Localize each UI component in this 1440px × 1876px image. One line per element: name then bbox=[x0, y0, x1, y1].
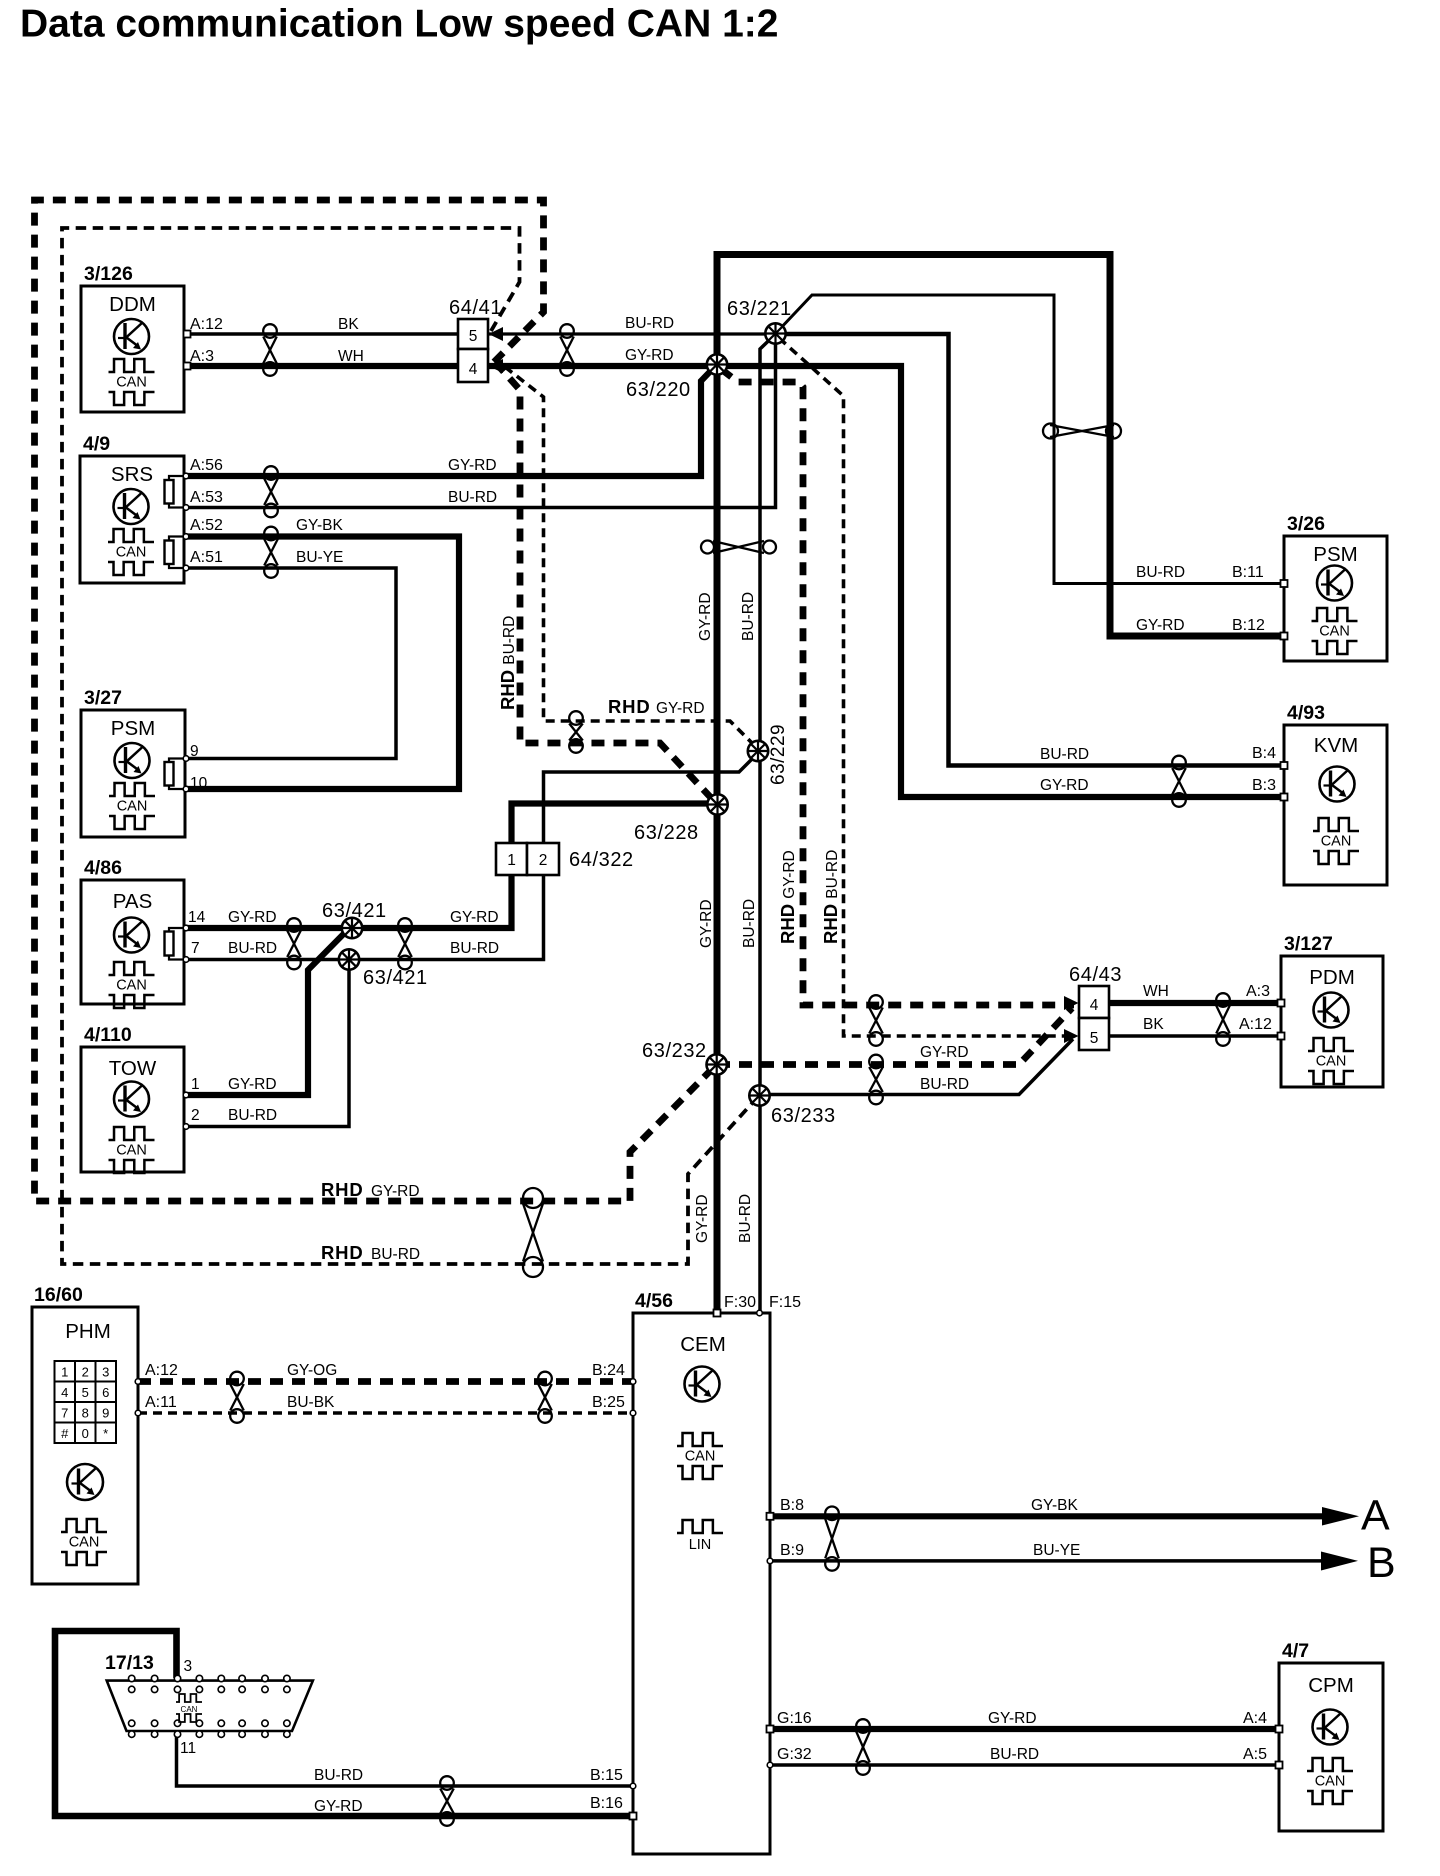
wire RHD GY-RD from node 63/220 to connector 64/43 pin 4 bbox=[721, 369, 1074, 1005]
svg-text:GY-RD: GY-RD bbox=[450, 909, 499, 926]
wire RHD GY-RD from 64/41 pin4 to node 63/229 bbox=[505, 367, 752, 743]
svg-text:3: 3 bbox=[102, 1365, 109, 1380]
svg-text:7: 7 bbox=[191, 940, 200, 957]
wire BU-RD SRS A:53 to node 63/221 bbox=[186, 336, 776, 508]
svg-text:2: 2 bbox=[539, 852, 548, 869]
node 63/228 bbox=[707, 794, 727, 814]
node 63/421 lower bbox=[339, 949, 359, 969]
svg-text:A:4: A:4 bbox=[1243, 1710, 1267, 1727]
svg-text:9: 9 bbox=[190, 743, 199, 760]
svg-text:CAN: CAN bbox=[117, 799, 148, 815]
svg-text:GY-RD: GY-RD bbox=[228, 909, 277, 926]
svg-text:4: 4 bbox=[1090, 997, 1099, 1014]
wire WH DDM A:3 to 64/41 pin 4 bbox=[186, 363, 458, 369]
svg-text:GY-RD: GY-RD bbox=[448, 457, 497, 474]
twisted pair PAS near bbox=[287, 918, 301, 969]
svg-text:WH: WH bbox=[338, 348, 364, 365]
wire RHD BU-RD from 64/41 pin5 to node 63/228 bbox=[495, 362, 713, 800]
LIN symbol bbox=[677, 1520, 723, 1533]
svg-text:4/9: 4/9 bbox=[83, 433, 110, 455]
svg-text:2: 2 bbox=[191, 1107, 200, 1124]
svg-text:5: 5 bbox=[82, 1385, 89, 1400]
twisted pair right of 64/41 bbox=[560, 324, 574, 376]
svg-text:CAN: CAN bbox=[1316, 1054, 1347, 1070]
svg-text:B:15: B:15 bbox=[590, 1767, 623, 1784]
svg-text:63/229: 63/229 bbox=[768, 724, 789, 785]
svg-text:3/27: 3/27 bbox=[84, 687, 122, 709]
wire BU-RD TOW pin2 to node 63/421 bbox=[186, 960, 349, 1127]
svg-text:A:12: A:12 bbox=[190, 316, 223, 333]
svg-text:16/60: 16/60 bbox=[34, 1284, 83, 1306]
svg-text:RHD GY-RD: RHD GY-RD bbox=[777, 850, 798, 944]
svg-text:63/233: 63/233 bbox=[771, 1105, 836, 1127]
wire BU-RD node 63/221 to KVM B:4 bbox=[776, 334, 1285, 766]
svg-text:BU-RD: BU-RD bbox=[1040, 746, 1089, 763]
svg-text:B:12: B:12 bbox=[1232, 617, 1265, 634]
svg-text:A: A bbox=[1361, 1492, 1390, 1540]
svg-text:GY-RD: GY-RD bbox=[656, 700, 705, 717]
twisted pair SRS A:56/A:53 bbox=[264, 466, 278, 517]
svg-text:#: # bbox=[61, 1426, 69, 1441]
svg-text:63/221: 63/221 bbox=[727, 298, 792, 320]
twisted pair main verticals bbox=[701, 541, 776, 554]
wire GY-RD top bus from 63/220 to PSM 3/26 B:12 bbox=[717, 255, 1284, 637]
svg-text:B:16: B:16 bbox=[590, 1795, 623, 1812]
svg-text:CAN: CAN bbox=[116, 978, 147, 994]
wire BU-RD 64/322 pin2 to node 63/229 bbox=[544, 757, 755, 844]
svg-text:BU-BK: BU-BK bbox=[287, 1394, 335, 1411]
svg-text:3/26: 3/26 bbox=[1287, 513, 1325, 535]
svg-text:B:8: B:8 bbox=[780, 1497, 804, 1514]
svg-text:GY-RD: GY-RD bbox=[314, 1798, 363, 1815]
svg-text:BK: BK bbox=[338, 316, 359, 333]
svg-text:F:30: F:30 bbox=[724, 1294, 756, 1311]
svg-text:8: 8 bbox=[82, 1406, 89, 1421]
svg-text:B: B bbox=[1367, 1539, 1396, 1587]
svg-text:*: * bbox=[103, 1426, 108, 1441]
wire RHD GY-RD outer dashed loop bbox=[35, 200, 714, 1201]
svg-text:A:51: A:51 bbox=[190, 549, 223, 566]
svg-text:SRS: SRS bbox=[111, 463, 153, 486]
svg-text:BU-RD: BU-RD bbox=[740, 592, 757, 641]
svg-text:RHD BU-RD: RHD BU-RD bbox=[820, 850, 841, 944]
svg-text:G:32: G:32 bbox=[777, 1746, 812, 1763]
svg-text:BU-RD: BU-RD bbox=[228, 940, 277, 957]
wire BU-RD from 64/41 pin5 to node 63/221 bbox=[488, 332, 776, 335]
svg-text:BU-YE: BU-YE bbox=[296, 549, 343, 566]
64/43 pin5 arrow bbox=[1064, 1029, 1079, 1043]
svg-text:PDM: PDM bbox=[1309, 966, 1355, 989]
wire GY-OG dashed PHM A:12 to CEM B:24 bbox=[138, 1378, 633, 1385]
svg-text:A:5: A:5 bbox=[1243, 1746, 1267, 1763]
twisted pair RHD bottom bbox=[523, 1188, 543, 1277]
svg-text:BU-RD: BU-RD bbox=[990, 1746, 1039, 1763]
svg-text:BU-RD: BU-RD bbox=[450, 940, 499, 957]
twisted pair SRS A:52/A:51 bbox=[264, 527, 278, 578]
wire RHD BU-RD inner dashed loop bbox=[62, 228, 755, 1264]
svg-text:B:3: B:3 bbox=[1252, 777, 1276, 794]
svg-text:63/421: 63/421 bbox=[322, 900, 387, 922]
svg-text:11: 11 bbox=[180, 1740, 196, 1757]
twisted pair PHM near bbox=[230, 1372, 244, 1423]
svg-text:CAN: CAN bbox=[1321, 834, 1352, 850]
64/43 pin4 arrow bbox=[1064, 996, 1079, 1010]
svg-text:5: 5 bbox=[469, 328, 478, 345]
svg-text:DDM: DDM bbox=[109, 293, 156, 316]
wire GY-RD from 64/41 pin4 to node 63/220 bbox=[488, 363, 717, 369]
node 63/233 bbox=[749, 1085, 769, 1105]
svg-text:F:15: F:15 bbox=[769, 1294, 801, 1311]
node 63/232 bbox=[707, 1054, 727, 1074]
wire BU-RD main vertical 63/221 to CEM F:15 bbox=[760, 336, 774, 1313]
svg-text:3/127: 3/127 bbox=[1284, 933, 1333, 955]
svg-text:GY-RD: GY-RD bbox=[698, 899, 715, 948]
svg-text:TOW: TOW bbox=[109, 1057, 157, 1080]
svg-text:BK: BK bbox=[1143, 1016, 1164, 1033]
svg-text:3: 3 bbox=[184, 1658, 193, 1675]
wire GY-RD dashed from node 63/232 to 64/43 pin 4 bbox=[717, 1008, 1072, 1065]
svg-text:GY-RD: GY-RD bbox=[988, 1710, 1037, 1727]
wire RHD BU-RD from node 63/221 to connector 64/43 pin 5 bbox=[779, 338, 1074, 1036]
svg-text:GY-RD: GY-RD bbox=[697, 592, 714, 641]
wire GY-RD main vertical 63/220 to CEM F:30 bbox=[714, 366, 721, 1313]
svg-text:BU-RD: BU-RD bbox=[314, 1767, 363, 1784]
64/41 pin5 arrow bbox=[489, 327, 504, 341]
svg-text:PHM: PHM bbox=[65, 1320, 111, 1343]
wire GY-BK SRS A:52 to PSM 3/27 pin 10 bbox=[186, 537, 459, 790]
svg-text:4: 4 bbox=[469, 361, 478, 378]
svg-text:A:11: A:11 bbox=[145, 1394, 177, 1411]
svg-text:CAN: CAN bbox=[69, 1535, 100, 1551]
wire GY-RD 64/322 pin1 to node 63/228 bbox=[512, 804, 718, 844]
wire GY-BK CEM B:8 to A bbox=[770, 1513, 1330, 1519]
svg-text:GY-RD: GY-RD bbox=[920, 1044, 969, 1061]
wire BU-RD 17/13 pin11 to CEM B:15 bbox=[177, 1736, 634, 1786]
svg-text:GY-RD: GY-RD bbox=[1136, 617, 1185, 634]
svg-text:64/322: 64/322 bbox=[569, 849, 634, 871]
svg-text:B:9: B:9 bbox=[780, 1542, 804, 1559]
twisted pair CPM wires bbox=[856, 1719, 870, 1775]
svg-text:WH: WH bbox=[1143, 983, 1169, 1000]
wire BU-BK dashed PHM A:11 to CEM B:25 bbox=[138, 1411, 633, 1415]
wire BU-YE CEM B:9 to B bbox=[770, 1559, 1330, 1563]
wire BU-RD PAS pin7 through 63/421 to 64/322 pin 2 bbox=[186, 875, 544, 960]
svg-text:B:25: B:25 bbox=[592, 1394, 625, 1411]
svg-text:GY-BK: GY-BK bbox=[1031, 1497, 1078, 1514]
twisted pair PAS far bbox=[398, 918, 412, 969]
svg-text:4/7: 4/7 bbox=[1282, 1640, 1309, 1662]
svg-text:BU-RD: BU-RD bbox=[920, 1076, 969, 1093]
svg-text:GY-RD: GY-RD bbox=[625, 347, 674, 364]
svg-text:5: 5 bbox=[1090, 1030, 1099, 1047]
svg-text:4/56: 4/56 bbox=[635, 1290, 673, 1312]
svg-text:63/232: 63/232 bbox=[642, 1040, 707, 1062]
svg-text:BU-RD: BU-RD bbox=[741, 899, 758, 948]
twisted pair B:15/B:16 bbox=[440, 1776, 454, 1826]
svg-text:CAN: CAN bbox=[1315, 1774, 1346, 1790]
twisted pair RHD mid bbox=[569, 711, 583, 753]
arrow A bbox=[1322, 1507, 1359, 1526]
svg-text:63/220: 63/220 bbox=[626, 379, 691, 401]
svg-text:B:4: B:4 bbox=[1252, 745, 1276, 762]
svg-text:GY-RD: GY-RD bbox=[371, 1183, 420, 1200]
svg-text:KVM: KVM bbox=[1314, 734, 1358, 757]
arrow B bbox=[1321, 1552, 1358, 1571]
svg-text:A:3: A:3 bbox=[1246, 983, 1270, 1000]
svg-text:9: 9 bbox=[102, 1406, 109, 1421]
svg-text:BU-RD: BU-RD bbox=[228, 1107, 277, 1124]
64/41 pin4 arrow bbox=[489, 359, 504, 373]
svg-text:B:24: B:24 bbox=[592, 1362, 625, 1379]
svg-text:64/41: 64/41 bbox=[449, 297, 502, 319]
svg-text:CPM: CPM bbox=[1308, 1674, 1354, 1697]
svg-text:CAN: CAN bbox=[116, 545, 147, 561]
twisted pair KVM wires bbox=[1172, 756, 1186, 807]
wire GY-RD TOW pin1 to node 63/421 bbox=[186, 931, 347, 1096]
svg-text:A:56: A:56 bbox=[190, 457, 223, 474]
twisted pair DDM wires bbox=[263, 324, 277, 376]
twisted pair 63/232-63/233 pair bbox=[869, 1055, 883, 1105]
svg-text:GY-OG: GY-OG bbox=[287, 1362, 337, 1379]
svg-text:CAN: CAN bbox=[116, 1143, 147, 1159]
svg-text:BU-RD: BU-RD bbox=[1136, 564, 1185, 581]
svg-text:A:3: A:3 bbox=[190, 348, 214, 365]
svg-text:GY-RD: GY-RD bbox=[1040, 777, 1089, 794]
svg-text:1: 1 bbox=[61, 1365, 68, 1380]
twisted pair A/B wires bbox=[825, 1507, 839, 1571]
wire WH 64/43 pin4 to PDM A:3 bbox=[1109, 1000, 1281, 1006]
svg-text:GY-RD: GY-RD bbox=[694, 1194, 711, 1243]
svg-text:CEM: CEM bbox=[680, 1333, 726, 1356]
wire BU-RD CEM G:32 to CPM A:5 bbox=[770, 1763, 1279, 1767]
svg-text:LIN: LIN bbox=[689, 1537, 712, 1553]
wire BK DDM A:12 to 64/41 pin 5 bbox=[186, 332, 458, 336]
svg-text:BU-YE: BU-YE bbox=[1033, 1542, 1080, 1559]
svg-text:4: 4 bbox=[61, 1385, 68, 1400]
svg-text:B:11: B:11 bbox=[1232, 564, 1264, 581]
svg-text:Data communication Low speed C: Data communication Low speed CAN 1:2 bbox=[20, 3, 778, 46]
node 63/220 bbox=[707, 354, 727, 374]
wire BU-RD from 63/221 to PSM 3/26 B:11 bbox=[777, 295, 1284, 584]
svg-text:4/93: 4/93 bbox=[1287, 702, 1325, 724]
svg-text:CAN: CAN bbox=[685, 1449, 716, 1465]
svg-text:BU-RD: BU-RD bbox=[737, 1194, 754, 1243]
twisted pair PSM 3/26 verticals bbox=[1043, 424, 1121, 439]
wire GY-RD node 63/220 to KVM B:3 bbox=[717, 366, 1284, 797]
wire BU-YE SRS A:51 to PSM 3/27 pin 9 bbox=[186, 568, 396, 759]
svg-text:CAN: CAN bbox=[1319, 624, 1350, 640]
svg-text:64/43: 64/43 bbox=[1069, 964, 1122, 986]
wire GY-RD CEM G:16 to CPM A:4 bbox=[770, 1726, 1279, 1732]
svg-text:14: 14 bbox=[188, 909, 206, 926]
twisted pair PHM far bbox=[538, 1372, 552, 1423]
svg-text:7: 7 bbox=[61, 1406, 68, 1421]
wire BU-RD node 63/233 to 64/43 pin 5 bbox=[760, 1039, 1073, 1095]
svg-text:RHD: RHD bbox=[608, 696, 650, 717]
svg-text:CAN: CAN bbox=[181, 1705, 198, 1714]
svg-text:RHD: RHD bbox=[321, 1242, 363, 1263]
twisted pair 64/43 dashed pair bbox=[869, 995, 883, 1046]
svg-text:4/110: 4/110 bbox=[84, 1024, 132, 1046]
17/13 mini CAN symbol bbox=[176, 1694, 202, 1702]
wire BK 64/43 pin5 to PDM A:12 bbox=[1109, 1034, 1281, 1038]
svg-text:A:53: A:53 bbox=[190, 489, 223, 506]
svg-text:RHD: RHD bbox=[321, 1179, 363, 1200]
svg-text:10: 10 bbox=[190, 775, 208, 792]
svg-text:PSM: PSM bbox=[111, 717, 155, 740]
svg-text:17/13: 17/13 bbox=[105, 1652, 154, 1674]
node 63/229 bbox=[748, 741, 768, 761]
twisted pair PDM wires bbox=[1216, 993, 1230, 1046]
svg-text:4/86: 4/86 bbox=[84, 857, 122, 879]
svg-text:PAS: PAS bbox=[113, 890, 153, 913]
svg-text:BU-RD: BU-RD bbox=[625, 315, 674, 332]
svg-text:A:12: A:12 bbox=[1239, 1016, 1272, 1033]
svg-text:CAN: CAN bbox=[116, 375, 147, 391]
svg-text:GY-RD: GY-RD bbox=[228, 1076, 277, 1093]
svg-text:2: 2 bbox=[82, 1365, 89, 1380]
node 63/221 bbox=[765, 323, 785, 343]
svg-text:1: 1 bbox=[191, 1076, 200, 1093]
svg-text:0: 0 bbox=[82, 1426, 89, 1441]
svg-text:A:52: A:52 bbox=[190, 517, 223, 534]
PHM keypad bbox=[55, 1361, 76, 1382]
svg-text:63/421: 63/421 bbox=[363, 967, 428, 989]
svg-text:G:16: G:16 bbox=[777, 1710, 812, 1727]
svg-text:A:12: A:12 bbox=[145, 1362, 178, 1379]
wire GY-RD PAS pin14 through 63/421 to 64/322 pin 1 bbox=[186, 875, 512, 928]
svg-text:BU-RD: BU-RD bbox=[371, 1246, 420, 1263]
svg-text:BU-RD: BU-RD bbox=[448, 489, 497, 506]
svg-text:63/228: 63/228 bbox=[634, 822, 699, 844]
svg-text:1: 1 bbox=[507, 852, 516, 869]
svg-text:GY-BK: GY-BK bbox=[296, 517, 343, 534]
node 63/421 upper bbox=[342, 918, 362, 938]
svg-text:PSM: PSM bbox=[1313, 543, 1357, 566]
svg-text:3/126: 3/126 bbox=[84, 263, 133, 285]
svg-text:6: 6 bbox=[102, 1385, 109, 1400]
wire GY-RD 17/13 pin3 loop to CEM B:16 bbox=[55, 1631, 633, 1816]
svg-text:RHD BU-RD: RHD BU-RD bbox=[497, 616, 518, 710]
wire GY-RD SRS A:56 to node 63/220 bbox=[186, 369, 713, 477]
